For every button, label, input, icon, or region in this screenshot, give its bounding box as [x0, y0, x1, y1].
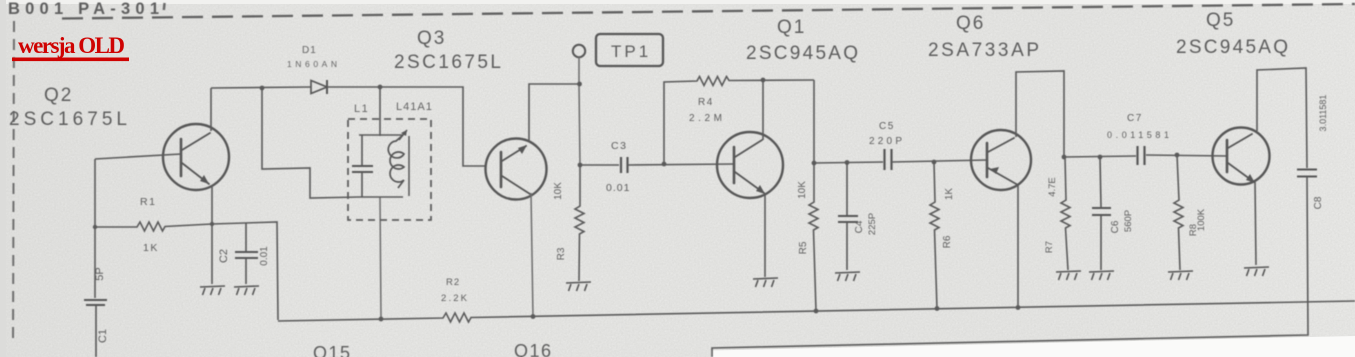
label C2 (rotated): [218, 249, 230, 263]
capacitor C2: [235, 223, 258, 284]
wire Q2 base: [95, 154, 181, 159]
label 2.2M: [689, 113, 722, 124]
title B001 PA-301: [8, 0, 166, 18]
label 225P (rotated): [867, 213, 878, 235]
svg-text:R6: R6: [942, 235, 953, 248]
label 560P (rotated): [1123, 210, 1134, 232]
svg-text:R4: R4: [698, 97, 714, 108]
svg-text:Q2: Q2: [44, 85, 73, 106]
resistor R8: [1174, 155, 1183, 270]
label Q6: [928, 13, 1040, 61]
wire Q6 emitter to bus: [1017, 185, 1019, 308]
wire Q2 emitter down: [211, 185, 213, 284]
svg-text:0.01: 0.01: [606, 182, 630, 194]
svg-text:C8: C8: [1313, 196, 1324, 209]
svg-text:C2: C2: [218, 249, 230, 263]
wire Z-path to tank bottom: [262, 88, 359, 198]
svg-text:2SC1675L: 2SC1675L: [394, 52, 502, 73]
label D1: [302, 45, 317, 56]
svg-text:2SA733AP: 2SA733AP: [928, 40, 1040, 61]
capacitor C8: [1297, 170, 1317, 177]
label R1: [140, 196, 156, 208]
transistor Q3: [486, 139, 547, 200]
svg-text:2.2M: 2.2M: [689, 113, 722, 124]
label Q1: [746, 17, 859, 64]
svg-text:R5: R5: [798, 241, 809, 254]
svg-text:C1: C1: [97, 329, 109, 343]
node C5 wire junction: [812, 161, 817, 166]
svg-text:B001 PA-301: B001 PA-301: [8, 0, 161, 18]
transistor Q2: [163, 124, 229, 190]
node bus junction tank: [379, 317, 384, 322]
node tank top junction: [378, 85, 383, 90]
capacitor C6: [1092, 157, 1111, 270]
svg-text:Q3: Q3: [417, 28, 446, 49]
svg-text:100K: 100K: [1196, 208, 1207, 231]
node bus junction Q6: [1016, 305, 1021, 310]
node C7 wire left junction: [1062, 155, 1067, 160]
label C8 (rotated): [1313, 196, 1324, 209]
ground under R7: [1056, 271, 1081, 280]
ground under R8: [1168, 271, 1193, 280]
svg-text:C4: C4: [854, 220, 865, 233]
transistor Q1: [717, 132, 783, 198]
capacitor in tank: [352, 135, 373, 197]
label 10K R5 (rotated): [797, 181, 808, 199]
label R6 (rotated): [942, 235, 953, 248]
wire C3 to Q1 base: [628, 164, 734, 165]
resistor R7: [1061, 157, 1070, 270]
label 1K: [143, 242, 159, 254]
label L1: [354, 103, 369, 115]
wire to C7: [1064, 156, 1136, 157]
ground under Q1: [753, 278, 778, 287]
capacitor C3: [621, 157, 628, 173]
label R5 (rotated): [798, 241, 809, 254]
svg-text:10K: 10K: [797, 181, 808, 199]
label Q2: [9, 85, 128, 130]
bus supply rail with resistor R2: [278, 301, 1355, 322]
label Q3: [394, 28, 502, 73]
label 220P: [869, 136, 902, 147]
capacitor C4: [838, 163, 858, 270]
wire Q5 emitter down: [1255, 182, 1256, 265]
label C1 (rotated): [97, 329, 109, 343]
label C6 (rotated): [1110, 220, 1121, 233]
svg-text:5P: 5P: [94, 267, 106, 280]
label Q16 (clipped): [514, 341, 553, 357]
ground under C4: [835, 272, 860, 281]
node R4 branch junction: [662, 162, 667, 167]
capacitor C1 5P: [84, 300, 107, 357]
inductor L1 coil: [388, 130, 409, 196]
wire Q1 collector up: [762, 80, 764, 140]
ground under R3: [566, 282, 591, 291]
resistor R5: [809, 80, 818, 311]
label Q5: [1176, 10, 1289, 58]
svg-text:Q5: Q5: [1206, 10, 1235, 31]
node bus junction R5: [814, 309, 819, 314]
label 3.011581 (rotated): [1318, 95, 1328, 132]
label 100K (rotated): [1196, 208, 1207, 231]
label C7: [1127, 113, 1143, 124]
svg-text:R7: R7: [1044, 241, 1055, 253]
node TP1 rail junction: [577, 82, 582, 87]
label R8 (rotated): [1188, 224, 1199, 236]
TP1 box: [596, 34, 663, 66]
label TP1: [611, 42, 651, 61]
resistor R4 with feedback wire: [664, 77, 814, 165]
wire Q3 lower lead to bus: [531, 193, 533, 317]
node C4 junction: [845, 160, 850, 165]
wire diode to Q3 base: [327, 87, 486, 166]
wire Q2 collector up: [210, 88, 212, 131]
svg-text:4.7E: 4.7E: [1047, 177, 1058, 197]
ground under C6: [1089, 271, 1114, 280]
svg-text:C7: C7: [1127, 113, 1143, 124]
svg-text:2.2K: 2.2K: [441, 293, 468, 304]
label C3: [611, 140, 627, 152]
wire emitter to C2 corner: [212, 222, 278, 320]
svg-text:C5: C5: [879, 121, 895, 132]
wire C3 node to cap: [580, 164, 619, 166]
svg-text:L1: L1: [354, 103, 369, 115]
label 0.01 (rotated): [259, 246, 270, 266]
wire top rail left: [211, 87, 311, 88]
page edge white wedge bottom right: [711, 336, 1355, 357]
tank bottom bar: [359, 196, 403, 198]
label 2.2K: [441, 293, 468, 304]
label R2: [446, 277, 460, 288]
node Q1 collector junction: [761, 78, 766, 83]
node emitter junction: [210, 222, 214, 226]
transistor Q6: [971, 130, 1031, 190]
svg-text:wersja OLD: wersja OLD: [18, 33, 125, 58]
node bus junction R6: [935, 306, 940, 311]
label R3 (rotated): [556, 247, 567, 260]
wire C8 down and return to bottom left: [712, 177, 1308, 357]
svg-text:Q6: Q6: [956, 13, 985, 34]
svg-text:560P: 560P: [1123, 210, 1134, 232]
svg-text:C3: C3: [611, 140, 627, 152]
svg-text:D1: D1: [302, 45, 317, 56]
red label wersja OLD: [12, 33, 129, 61]
node bus junction Q3: [531, 314, 536, 319]
svg-text:Q15: Q15: [313, 343, 352, 357]
label 5P (rotated): [94, 267, 106, 280]
capacitor C7: [1138, 146, 1145, 165]
border: left dashed line: [13, 21, 14, 345]
svg-text:0.01: 0.01: [259, 246, 270, 266]
wire to C5: [814, 162, 883, 163]
node base-R1 junction: [93, 225, 97, 229]
svg-text:2SC1675L: 2SC1675L: [9, 109, 128, 130]
svg-text:220P: 220P: [869, 136, 902, 147]
label 0.011581: [1107, 130, 1169, 140]
svg-text:R2: R2: [446, 277, 460, 288]
svg-text:TP1: TP1: [611, 42, 651, 61]
label R7 (rotated): [1044, 241, 1055, 253]
wire tank riser bottom to bus: [380, 197, 381, 319]
label Q15 (clipped): [313, 343, 352, 357]
wire Q3 upper lead to rail: [529, 84, 580, 142]
svg-text:L41A1: L41A1: [396, 101, 433, 113]
svg-text:C6: C6: [1110, 220, 1121, 233]
wire Q5 collector to C8: [1257, 68, 1307, 168]
wire left vertical to C1: [94, 159, 96, 298]
wire tank riser top: [379, 87, 381, 136]
wire TP1 drop: [579, 57, 580, 165]
label 1K R6 (rotated): [944, 188, 955, 201]
node top rail junction: [260, 86, 265, 91]
wire Q1 emitter down: [764, 194, 766, 277]
svg-text:1K: 1K: [143, 242, 159, 254]
node C6 junction: [1098, 155, 1103, 160]
ground under Q5: [1244, 267, 1269, 276]
node C3 left junction: [578, 163, 583, 168]
label 10K (rotated): [553, 182, 564, 200]
node R6 junction: [932, 160, 937, 165]
svg-text:0.011581: 0.011581: [1107, 130, 1169, 140]
resistor R1: [95, 222, 212, 231]
svg-text:1K: 1K: [944, 188, 955, 201]
dashed box around L1 tank: [348, 119, 431, 220]
svg-text:Q1: Q1: [777, 17, 806, 38]
label 4.7E (rotated): [1047, 177, 1058, 197]
ground under C2: [234, 286, 259, 295]
svg-text:10K: 10K: [553, 182, 564, 200]
svg-text:3.011581: 3.011581: [1318, 95, 1328, 132]
transistor Q5: [1213, 128, 1270, 185]
wire C7 to Q5 base: [1146, 155, 1227, 156]
label L41A1: [396, 101, 433, 113]
diode D1: [311, 80, 327, 94]
ground under Q2: [200, 286, 225, 295]
label C4 (rotated): [854, 220, 865, 233]
svg-text:R1: R1: [140, 196, 156, 208]
svg-text:225P: 225P: [867, 213, 878, 235]
wire C5 to Q6 base: [892, 160, 987, 162]
label 0.01 under C3: [606, 182, 630, 194]
label R4: [698, 97, 714, 108]
label C5: [879, 121, 895, 132]
label 1N60AN: [287, 59, 337, 69]
node R8 junction: [1175, 153, 1180, 158]
svg-text:R3: R3: [556, 247, 567, 260]
resistor R6: [930, 162, 939, 309]
wire Q6 collector to C7 node: [1016, 71, 1064, 157]
resistor R3: [575, 165, 584, 281]
svg-text:Q16: Q16: [514, 341, 553, 357]
capacitor C5: [885, 149, 892, 170]
test point TP1 circle: [573, 45, 585, 57]
tank top bar: [359, 134, 403, 136]
border: top dashed line: [62, 4, 1355, 19]
